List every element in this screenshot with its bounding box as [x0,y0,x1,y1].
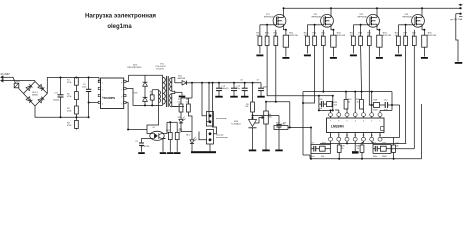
ground under shunt R03 [330,57,337,59]
ground under R15 [350,55,357,57]
resistor R12 4k7 [306,25,308,36]
svg-text:TL431ACZ: TL431ACZ [231,123,241,126]
wire C13 group right rail [390,145,392,154]
wire HL1 to ground [191,148,193,151]
svg-text:100n: 100n [263,86,267,88]
junction source node VT4 [423,29,425,31]
svg-text:10: 10 [346,135,348,137]
LED HL1 [191,136,193,140]
transistor VT1 IRFP260N [273,14,286,27]
ground under R22 [174,152,181,154]
resistor R16 10 [360,25,362,36]
wire drain VT4 to rail [421,8,423,14]
ground under R12 [304,55,311,57]
junction source node VT3 [378,29,380,31]
capacitor C6 100n [244,83,246,88]
svg-text:4: 4 [355,120,356,122]
junction +12 rail x219 [218,82,220,84]
resistor R8 510 [187,98,189,104]
wire cell2 gate drive line [303,46,315,104]
junction +12 rail x209 [208,82,210,84]
junction +12 rail x192 [191,82,193,84]
ground under R18 [395,55,402,57]
wire opto rail [128,129,147,131]
wire source VT1 to shunt [284,27,286,30]
wire gate VT1 [260,24,273,26]
svg-text:R022 5W: R022 5W [289,35,297,37]
wire pin6 stub [338,110,340,113]
wire secondary low end [172,106,178,108]
svg-text:IRFP260N: IRFP260N [358,17,368,19]
shunt resistor R03 R022 5W [332,30,334,35]
wire +12V rail [191,82,261,84]
wire mid rail extend [76,116,88,118]
wire cell4 sense line [413,46,415,149]
wire cell1 gate drive line [267,46,318,96]
svg-text:1: 1 [102,82,103,84]
capacitor C9 [311,148,314,150]
ground under R21 [167,152,174,154]
transistor VT2 IRFP260N [321,14,334,27]
junction gate node VT4 [405,24,407,26]
svg-text:8: 8 [330,135,331,137]
svg-text:5: 5 [121,103,122,105]
svg-text:5: 5 [347,120,348,122]
winding aux [158,91,160,103]
bridge rectifier VD5-1 2W207 [35,82,47,94]
junction clamp bottom [144,104,146,106]
resistor R11 1k [275,30,277,36]
wire fan feed 3 [213,83,217,134]
wire R8 down [188,112,192,136]
svg-text:2: 2 [102,89,103,91]
junction bottom bus dots [338,158,340,160]
svg-text:100n: 100n [373,156,377,158]
terminal - output [459,13,461,15]
svg-text:вентилятора: вентилятора [216,137,229,139]
junction top bus dots [345,91,347,93]
resistor R15 4k7 [352,25,354,36]
resistor Rb 20 [150,95,154,100]
resistor R20 1k [413,30,415,36]
capacitor C3 [139,142,144,144]
IC U3 LM324N [327,118,385,133]
capacitor C2 100n [88,78,90,90]
svg-text:3: 3 [363,120,364,122]
IC U2 TNY268PN [101,78,124,109]
wire TNY pin5 to opto rail [126,103,128,130]
wire TL431 ref tap [253,115,280,117]
junction drain VT4 on rail [421,7,423,9]
svg-text:1k: 1k [348,101,350,103]
svg-text:8: 8 [121,82,122,84]
resistor R21 1k [169,122,171,132]
wire opto anode [147,130,150,134]
junction C2 top [88,77,90,79]
terminal + output [459,7,461,9]
wire C13 group top link [373,144,391,146]
wire source VT4 to shunt [422,27,424,30]
svg-text:10k: 10k [245,106,248,108]
svg-text:11: 11 [354,135,356,137]
svg-text:22k: 22k [395,145,398,147]
svg-text:R022 5W: R022 5W [383,35,391,37]
ground under C4 [215,96,223,98]
junction trimmer top [265,101,267,103]
wire cell3 sense into pin [369,104,371,106]
wire drain VT1 to rail [283,8,285,14]
junction gate node VT2 [314,24,316,26]
ground under C15 [275,150,283,152]
svg-text:2W207: 2W207 [32,94,39,96]
resistor R29 1k [338,141,340,145]
svg-text:470x: 470x [236,88,240,90]
svg-text:1k: 1k [179,132,181,134]
wire C9 group bottom link [311,153,331,155]
svg-text:1k: 1k [274,35,276,37]
resistor R17 1k [368,30,370,36]
wire cell2 sense line [322,46,324,92]
wire source VT2 to shunt [331,27,333,30]
TL431 VD8 [249,120,257,127]
svg-text:Нагрузка ээлектронная: Нагрузка ээлектронная [85,12,156,19]
wire riser x399 [399,105,401,138]
svg-text:6: 6 [121,96,122,98]
resistor R5 10k [252,83,254,102]
junction drain VT1 on rail [283,7,285,9]
junction R column top [75,77,77,79]
resistor R25 1k [345,92,347,100]
svg-text:470k: 470k [67,110,71,112]
capacitor C1 bulk [60,78,62,95]
wire DC rail to TNY pin1 [98,78,100,82]
junction TNY pin5 node [127,129,129,131]
wire group to pin7 [319,109,333,111]
wire pin4 supply riser [354,92,356,113]
svg-text:R022 5W: R022 5W [337,35,345,37]
resistor R28 220R [374,103,380,108]
svg-text:1k: 1k [357,101,359,103]
connector X2 fan power [207,130,214,145]
resistor R9 4k7 [259,25,261,36]
svg-text:HER508: HER508 [178,78,186,80]
ground bar HL1 and connectors [191,151,216,153]
wire C10 group top link [319,95,333,97]
ground under C3 [138,152,145,154]
wire rail tap to bleeders [191,83,193,98]
diode VD3 [144,75,146,82]
thermistor NR1 [13,77,16,83]
svg-text:14: 14 [379,135,381,137]
wire collector bus [167,121,177,123]
ground under shunt R02 [282,57,289,59]
wire C2 to TNY pin4 [89,102,99,104]
resistor R31 220R [380,146,386,151]
resistor R14 1k [322,30,324,36]
wire pin1 stub [379,110,381,112]
transistor VT4 IRFP260N [412,14,425,27]
svg-text:220R: 220R [382,156,387,158]
wire C13 group bottom link [373,153,391,155]
svg-text:7: 7 [121,89,122,91]
ground under shunt R04 [376,57,383,59]
ground under C6 [241,96,249,98]
wire mid bus y143 [320,142,406,144]
wire C9 group right rail [330,141,332,153]
svg-text:IRFP260N: IRFP260N [264,17,274,19]
ground blob pin11 [352,151,359,153]
diode VD6 BYV26C [144,93,146,98]
shunt resistor R04 R022 5W [378,30,380,35]
wire cell1 sense line [275,46,277,102]
svg-text:3: 3 [102,96,103,98]
wire fan feed 2 [207,83,210,122]
wire cell4 gate drive line [405,46,407,144]
ground under shunt R05 [421,57,428,59]
svg-text:100n: 100n [82,86,86,88]
svg-text:1k: 1k [357,148,359,150]
ground at - terminal [455,62,463,64]
resistor R24 20k [327,102,333,107]
wire C10 group right rail [332,96,334,111]
svg-text:20k: 20k [321,156,324,158]
wire R28 group right rail [391,92,393,111]
wire C10 group left rail [318,96,320,111]
junction source node VT2 [332,29,334,31]
wire bridge + up to DC rail [47,78,99,94]
ground under trimmer [262,150,270,152]
junction drain VT3 on rail [376,7,378,9]
svg-text:12: 12 [363,135,365,137]
shunt resistor R02 R022 5W [285,30,287,35]
svg-text:1k: 1k [321,35,323,37]
svg-text:1k: 1k [341,148,343,150]
svg-text:oleg1ma: oleg1ma [107,24,132,30]
wire drain VT2 to rail [330,8,332,14]
resistor R22 1k [176,122,178,132]
transformer TV1 secondary 1 [171,78,173,92]
svg-text:20: 20 [150,94,152,96]
svg-text:2: 2 [371,120,372,122]
wire source VT3 to shunt [377,27,379,30]
shunt resistor R05 R022 5W [423,30,425,35]
terminal AC neutral [1,79,3,82]
wire bridge - to mid rail [35,106,76,117]
junction R column mid rail [75,116,77,118]
wire opto collector [166,122,168,133]
wire - terminal down [456,14,458,62]
junction +12 rail x244.7 [244,82,246,84]
junction C1 bottom [60,116,62,118]
ground under C5 [230,96,238,98]
wire pin14 feed line [382,137,400,139]
wire opto cathode [142,139,151,144]
svg-text:4: 4 [102,103,103,105]
LED VD4 [180,116,182,119]
capacitor C5 470x [233,83,235,88]
svg-text:LM324N: LM324N [331,125,344,129]
junction gate node VT3 [360,24,362,26]
resistor R13 10 [314,25,316,36]
junction +12 rail x252.5 [252,82,254,84]
diode VD2 HER508 [178,82,183,84]
svg-text:7: 7 [330,120,331,122]
svg-text:20k: 20k [334,105,337,107]
wire riser x311 [310,128,312,159]
wire top bus [303,91,392,93]
junction source node VT1 [285,29,287,31]
wire C9 group left rail [310,145,312,154]
svg-text:вентилятор: вентилятор [216,118,228,120]
wire TNY pin7 drain to primary [126,89,163,106]
svg-text:до 30V 10A: до 30V 10A [451,18,463,21]
transistor VT3 IRFP260N [367,14,380,27]
ground under opto emitter [160,152,167,154]
svg-text:470k: 470k [67,96,71,98]
svg-text:9: 9 [338,135,339,137]
svg-text:10k: 10k [269,117,272,119]
svg-text:IRFP260N: IRFP260N [403,17,413,19]
resistor R4 470k [75,114,77,120]
svg-text:6: 6 [338,120,339,122]
junction bias R bottom [151,104,153,106]
svg-text:1k: 1k [367,35,369,37]
svg-text:220R: 220R [373,110,378,112]
svg-text:TTL8271: TTL8271 [156,69,165,71]
resistor R7 510 [180,98,182,104]
resistor R2 470k [75,85,77,91]
connector X1 fan [207,112,214,127]
wire group2 to line149 [391,148,414,150]
wire fan feed 4 [199,132,207,140]
junction pin10 on bus [346,141,348,143]
wire AC to bridge top [34,80,36,83]
transformer TV1 secondary 2 [171,94,173,107]
svg-text:13: 13 [371,135,373,137]
svg-text:470k: 470k [67,125,71,127]
ground under C7 [257,96,265,98]
wire fan feed 1 [202,83,207,116]
resistor R30 1k [360,145,364,152]
junction drain VT2 on rail [330,7,332,9]
resistor R23 4k7 [274,126,288,130]
svg-text:1: 1 [380,120,381,122]
resistor R3 470k [75,100,77,106]
svg-text:1000x25: 1000x25 [221,88,230,90]
wire clamp rail [129,74,163,76]
capacitor C12 100n [384,102,386,108]
junction R23 sense [289,127,291,129]
wire drain VT3 to rail [376,8,378,14]
wire riser x303 [302,92,304,155]
wire gate VT3 [353,24,366,26]
junction cell2 sense on bus [322,91,324,93]
ground under TL431 [249,150,257,152]
svg-text:FR107/BYV26C: FR107/BYV26C [128,67,143,69]
svg-text:R022 5W: R022 5W [428,35,436,37]
resistor R1 470k [75,78,79,86]
junction C2 bottom [88,116,90,118]
svg-text:470k: 470k [67,82,71,84]
ground secondary tap [179,96,186,98]
wire x303 bottom link [303,154,310,156]
svg-text:10400x: 10400x [53,99,60,101]
wire R28 group left rail [371,92,373,113]
ground under R9 [256,55,263,57]
wire cell3 sense line [369,46,371,106]
junction +12 rail x212.5 [212,82,214,84]
svg-text:IRFP260N: IRFP260N [312,17,322,19]
resistor R19 10 [405,25,407,36]
junction +12 rail x234 [233,82,235,84]
capacitor C10 1u0 [319,103,322,105]
svg-text:1k: 1k [412,35,414,37]
junction +12 rail x202 [201,82,203,84]
wire bottom bus [310,158,422,160]
wire C13 group left rail [372,145,374,154]
optocoupler U1 PC817 [150,131,164,140]
wire aux to opto node [147,102,159,129]
junction gate node VT1 [266,24,268,26]
wire VD4 to HL1 line [181,127,192,132]
transformer TV1 core [165,76,167,107]
wire opto emitter [163,139,166,152]
wire pin13 jog [372,141,373,144]
resistor R27 20k [320,146,326,151]
capacitor C7 100n [260,83,262,88]
capacitor C13 100n [373,148,375,150]
wire TNY pin8 to clamp rail [126,75,129,81]
svg-text:1k: 1k [167,132,169,134]
trimmer R6 10k [265,102,267,111]
capacitor C15 [278,116,280,125]
wire C9 group top link [311,144,331,146]
transformer TV1 primary [162,75,164,77]
junction R23 right [310,127,312,129]
wire pin11 down [354,141,356,151]
svg-text:TNY268PN: TNY268PN [102,97,115,100]
wire +V drain rail [284,7,461,9]
wire secondary mid taps [172,91,175,93]
resistor R18 4k7 [397,25,399,36]
wire outer corner x421 [421,104,423,159]
junction C1 top [60,77,62,79]
terminal AC line [1,76,3,79]
wire gate VT2 [307,24,320,26]
wire gate VT4 [398,24,411,26]
junction R5 bottom [252,117,254,119]
wire cell3 gate drive line [360,46,363,92]
svg-text:AC 220V: AC 220V [1,73,11,76]
resistor R26 1k [361,92,363,100]
resistor R32 22k [393,138,395,146]
resistor R10 10 [266,25,268,36]
capacitor C4 1000x25 [218,83,220,88]
